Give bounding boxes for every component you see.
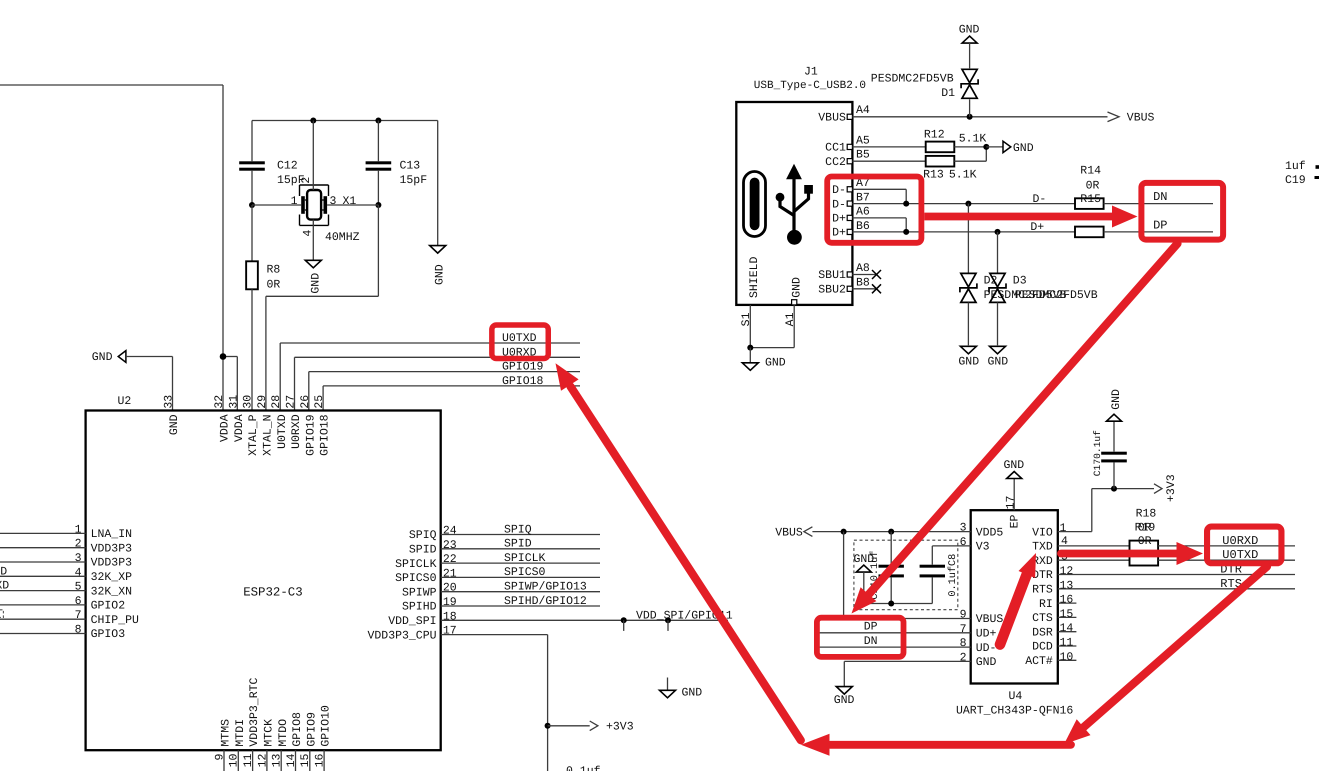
svg-text:A1: A1 xyxy=(784,312,797,326)
svg-text:R14: R14 xyxy=(1080,165,1101,178)
svg-text:VDD3P3_CPU: VDD3P3_CPU xyxy=(367,629,436,642)
svg-text:GND: GND xyxy=(1013,142,1034,155)
svg-text:MTCK: MTCK xyxy=(263,719,276,747)
svg-text:D1: D1 xyxy=(941,87,955,100)
svg-text:19: 19 xyxy=(443,596,457,609)
svg-text:GPIO18: GPIO18 xyxy=(502,375,544,388)
svg-text:GND: GND xyxy=(834,694,855,707)
svg-text:VBUS: VBUS xyxy=(818,112,846,125)
wire crystal top GND rail xyxy=(252,120,438,122)
U2 pin 16 GPIO10 xyxy=(314,705,333,771)
J1 pin B8 SBU2 no-connect xyxy=(818,277,881,297)
svg-text:VBUS: VBUS xyxy=(775,526,803,539)
svg-text:VIO: VIO xyxy=(1032,526,1053,539)
U2 pin 20 SPIWP xyxy=(402,582,600,600)
svg-text:MTMS: MTMS xyxy=(220,719,233,747)
svg-text:MTDO: MTDO xyxy=(277,719,290,747)
U2 pin 31 VDDA xyxy=(227,395,246,442)
svg-text:GND: GND xyxy=(791,277,804,298)
svg-text:28: 28 xyxy=(270,395,283,409)
svg-text:12: 12 xyxy=(256,754,269,768)
annotation red diagonal right box to bottom xyxy=(1064,567,1267,745)
U4 pin 17 EP xyxy=(1005,479,1022,529)
J1 pin S1 SHIELD xyxy=(740,305,753,348)
svg-text:PESDMC2FD5VB: PESDMC2FD5VB xyxy=(1015,289,1098,302)
svg-text:U0RXD: U0RXD xyxy=(290,414,303,449)
svg-text:UD-: UD- xyxy=(976,642,997,655)
svg-text:0R: 0R xyxy=(1086,179,1100,192)
svg-text:GND: GND xyxy=(988,355,1009,368)
svg-text:C19: C19 xyxy=(1285,174,1306,187)
node VDD_SPI junction 1 xyxy=(621,617,627,631)
svg-text:9: 9 xyxy=(213,754,226,761)
J1 pin A6 D+ xyxy=(832,206,906,232)
U2 pin 13 MTDO xyxy=(271,719,290,771)
svg-text:CHIP_PU: CHIP_PU xyxy=(91,614,139,627)
svg-text:VBUS: VBUS xyxy=(976,613,1004,626)
svg-text:RI: RI xyxy=(1039,598,1053,611)
svg-text:VDD3P3: VDD3P3 xyxy=(91,542,133,555)
svg-text:VDD3P3_RTC: VDD3P3_RTC xyxy=(248,677,261,746)
svg-text:14: 14 xyxy=(285,754,298,768)
svg-text:31: 31 xyxy=(227,395,240,409)
svg-text:15pF: 15pF xyxy=(400,174,428,187)
node C13 top junction xyxy=(375,118,381,124)
net label VBUS output arrow xyxy=(1108,112,1155,125)
svg-text:SPIWP: SPIWP xyxy=(402,586,437,599)
U2 pin 6 GPIO2 xyxy=(0,595,125,613)
U4 pin 7 UD+ xyxy=(819,623,996,641)
svg-text:24: 24 xyxy=(443,525,457,538)
svg-text:15: 15 xyxy=(299,754,312,768)
svg-text:29: 29 xyxy=(256,395,269,409)
J1 pin A1 GND xyxy=(750,300,797,348)
U2 pin 25 GPIO18 xyxy=(313,395,332,456)
U4 pin 13 RTS xyxy=(1032,579,1295,596)
J1 pin B6 D+ xyxy=(832,220,1075,240)
svg-text:0R: 0R xyxy=(1138,535,1152,548)
U2 pin 28 U0TXD xyxy=(270,395,289,449)
svg-text:32: 32 xyxy=(213,395,226,409)
svg-text:SPIHD/GPIO12: SPIHD/GPIO12 xyxy=(504,595,587,608)
svg-text:1: 1 xyxy=(1060,522,1067,535)
svg-text:R8: R8 xyxy=(267,263,281,276)
svg-text:X1: X1 xyxy=(343,195,357,208)
svg-text:DCD: DCD xyxy=(1032,641,1053,654)
svg-text:1: 1 xyxy=(75,523,82,536)
IC U4 UART_CH343P-QFN16 body xyxy=(956,510,1073,717)
wire U2 pin31 jog to pin32 xyxy=(223,357,237,411)
svg-text:SBU1: SBU1 xyxy=(818,269,846,282)
U2 pin 30 XTAL_P xyxy=(242,395,261,456)
svg-text:SPID: SPID xyxy=(409,544,437,557)
svg-text:9: 9 xyxy=(960,609,967,622)
capacitor C17 0.1uf xyxy=(1092,421,1127,488)
svg-text:D-: D- xyxy=(1033,193,1047,206)
svg-text:6: 6 xyxy=(960,536,967,549)
resistor R14 0R on D+ line xyxy=(1075,227,1104,238)
svg-text:U0TXD: U0TXD xyxy=(276,414,289,449)
svg-text:RTS: RTS xyxy=(1032,584,1053,597)
U2 pin 32 VDDA xyxy=(213,395,232,442)
wire net U0RXD from U2 pin27 xyxy=(295,357,581,410)
wire top-left net to U2 pin 32 xyxy=(0,85,223,411)
svg-text:U0RXD: U0RXD xyxy=(1222,534,1258,548)
svg-text:7: 7 xyxy=(960,623,967,636)
connector J1 USB_Type-C_USB2.0 body xyxy=(736,66,866,305)
svg-text:GND: GND xyxy=(310,273,323,294)
svg-text:S1: S1 xyxy=(740,312,753,326)
wire net GPIO19 from U2 pin26 xyxy=(309,372,580,411)
svg-text:CTS: CTS xyxy=(1032,612,1053,625)
svg-text:22: 22 xyxy=(443,553,457,566)
ground below D3 xyxy=(988,346,1009,368)
svg-text:ESP32-C3: ESP32-C3 xyxy=(243,586,303,600)
node X1 pin2 junction xyxy=(310,118,316,124)
U2 pin 10 MTDI xyxy=(228,719,247,771)
svg-text:0.1uf: 0.1uf xyxy=(566,765,601,771)
U2 pin 12 MTCK xyxy=(256,719,275,771)
svg-text:SPIHD: SPIHD xyxy=(402,601,437,614)
annotation red box U0TXD/U0RXD top xyxy=(492,325,548,358)
svg-text:+3V3: +3V3 xyxy=(1165,474,1178,502)
svg-text:32K_XN: 32K_XN xyxy=(91,585,132,598)
U2 pin 15 GPIO9 xyxy=(299,712,318,771)
svg-text:D3: D3 xyxy=(1013,274,1027,287)
U2 pin 3 VDD3P3 xyxy=(0,552,132,570)
svg-text:J1: J1 xyxy=(804,66,818,79)
svg-text:3: 3 xyxy=(960,522,967,535)
svg-text:R13: R13 xyxy=(923,169,944,182)
J1 pin A7 D- xyxy=(832,177,906,204)
svg-text:14: 14 xyxy=(1060,622,1074,635)
node S1/A1 junction xyxy=(747,345,753,351)
svg-text:16: 16 xyxy=(1060,594,1074,607)
svg-text:7: 7 xyxy=(75,609,82,622)
svg-text:30: 30 xyxy=(242,395,255,409)
svg-text:8: 8 xyxy=(960,637,967,650)
svg-text:GND: GND xyxy=(976,656,997,669)
svg-text:4: 4 xyxy=(1061,535,1068,548)
J1 pin B7 D- xyxy=(832,191,1075,211)
IC U2 ESP32-C3 body xyxy=(86,395,441,750)
svg-text:UART_CH343P-QFN16: UART_CH343P-QFN16 xyxy=(956,705,1073,718)
U2 pin 29 XTAL_N xyxy=(256,395,275,456)
svg-text:17: 17 xyxy=(1005,496,1018,510)
svg-text:B6: B6 xyxy=(856,220,870,233)
svg-text:20: 20 xyxy=(443,582,457,595)
svg-text:D+: D+ xyxy=(832,213,846,226)
svg-text:3: 3 xyxy=(75,552,82,565)
net label VBUS input at U4 xyxy=(775,526,812,539)
svg-text:SHIELD: SHIELD xyxy=(748,256,761,298)
node VBUS/C11 junction xyxy=(888,529,894,535)
U2 pin 21 SPICS0 xyxy=(395,567,600,585)
ground below D2 xyxy=(958,346,979,368)
node +3V3 junction xyxy=(545,723,551,729)
svg-text:25: 25 xyxy=(313,395,326,409)
svg-text:GPIO10: GPIO10 xyxy=(320,705,333,747)
capacitor C12 xyxy=(239,121,305,206)
svg-text:5.1K: 5.1K xyxy=(949,169,977,182)
svg-text:+3V3: +3V3 xyxy=(606,721,634,734)
annotation red arrow TXD to U0RXD box xyxy=(1061,542,1203,565)
svg-text:1uf: 1uf xyxy=(1285,160,1306,173)
svg-text:D+: D+ xyxy=(1030,221,1044,234)
svg-text:11: 11 xyxy=(1060,637,1074,650)
svg-text:SPICLK: SPICLK xyxy=(395,558,437,571)
svg-text:GND: GND xyxy=(958,355,979,368)
ground flag at U2 pin 33 xyxy=(92,351,173,411)
ground below J1 xyxy=(742,348,786,371)
svg-text:1: 1 xyxy=(291,195,298,208)
svg-text:B8: B8 xyxy=(856,277,870,290)
svg-text:21: 21 xyxy=(443,567,457,580)
svg-text:C170.1uf: C170.1uf xyxy=(1092,430,1103,476)
node X1 pin3 junction xyxy=(375,202,381,208)
svg-text:VDDA: VDDA xyxy=(233,414,246,442)
svg-text:DP: DP xyxy=(1153,219,1167,233)
capacitor C8 0.1uf xyxy=(920,546,959,604)
svg-text:U4: U4 xyxy=(1009,690,1023,703)
wire X1 pin3 to C13 node xyxy=(327,204,378,206)
annotation red box U0RXD/U0TXD right xyxy=(1207,527,1281,564)
svg-text:SPICLK: SPICLK xyxy=(504,552,546,565)
node D3 branch junction xyxy=(995,229,1001,235)
svg-text:XTAL_N: XTAL_N xyxy=(262,414,275,455)
U2 pin 9 MTMS xyxy=(213,719,232,771)
svg-text:C12: C12 xyxy=(277,160,298,173)
U2 pin 4 32K_XP xyxy=(0,566,132,584)
svg-text:10: 10 xyxy=(1060,651,1074,664)
U4 pin 4 TXD / resistor R18 0R xyxy=(1032,507,1295,553)
TVS diode D2 PESDMC2FD5VB xyxy=(960,204,1067,346)
capacitor C13 xyxy=(366,121,428,206)
node D2 branch junction xyxy=(965,201,971,207)
svg-text:XTAL_P: XTAL_P xyxy=(247,414,260,456)
dashed box fragment at U2 pin7 xyxy=(0,610,3,618)
svg-text:B5: B5 xyxy=(856,149,870,162)
svg-text:27: 27 xyxy=(285,395,298,409)
annotation red box U4 DP/DN xyxy=(817,618,904,657)
node CC pullup junction xyxy=(983,144,989,150)
svg-text:GND: GND xyxy=(682,687,703,700)
capacitor C19 1uf fragment at right edge xyxy=(1285,160,1319,187)
svg-text:VDD_SPI: VDD_SPI xyxy=(388,615,436,628)
svg-text:VDD5: VDD5 xyxy=(976,526,1004,539)
U2 pin 1 LNA_IN xyxy=(0,523,132,541)
svg-text:3: 3 xyxy=(330,195,337,208)
svg-text:17: 17 xyxy=(443,625,457,638)
U4 pin 5 RXD / resistor R19 0R xyxy=(1032,551,1295,568)
svg-text:26: 26 xyxy=(299,395,312,409)
svg-text:VDD3P3: VDD3P3 xyxy=(91,557,133,570)
U2 pin 22 SPICLK xyxy=(395,553,600,571)
svg-text:40MHZ: 40MHZ xyxy=(325,231,360,244)
svg-text:GND: GND xyxy=(433,264,446,285)
power label +3V3 at U2 xyxy=(548,721,634,734)
svg-text:4: 4 xyxy=(75,566,82,579)
svg-text:MTDI: MTDI xyxy=(234,719,247,747)
U2 pin 18 VDD_SPI xyxy=(388,610,728,628)
svg-text:SPICS0: SPICS0 xyxy=(504,566,546,579)
annotation red diagonal bottom to U0TXD box xyxy=(556,363,801,740)
node X1 pin1 junction xyxy=(249,202,255,208)
svg-text:EP: EP xyxy=(1009,515,1022,529)
svg-text:GPIO8: GPIO8 xyxy=(291,712,304,747)
dashed box decoupling caps xyxy=(854,540,958,610)
svg-text:VDDA: VDDA xyxy=(219,414,232,442)
wire D+ to DP label xyxy=(1104,231,1213,233)
svg-text:5.1K: 5.1K xyxy=(959,133,987,146)
svg-text:5: 5 xyxy=(75,581,82,594)
node VBUS / D1 junction xyxy=(967,114,973,120)
svg-text:GND: GND xyxy=(959,23,980,36)
ground below X1 pin4 xyxy=(305,260,322,293)
svg-text:0R: 0R xyxy=(267,279,281,292)
svg-text:GPIO19: GPIO19 xyxy=(502,361,544,374)
wire net U0TXD from U2 pin28 xyxy=(280,343,580,411)
svg-text:33: 33 xyxy=(163,395,176,409)
annotation red diagonal DN/DP to U4 DP/DN xyxy=(852,244,1178,614)
wire D- to DN label xyxy=(1104,203,1213,205)
svg-text:8: 8 xyxy=(75,624,82,637)
ground below U4 pin2 xyxy=(834,687,855,708)
U2 pin 23 SPID xyxy=(409,539,600,557)
wire net GPIO18 from U2 pin25 xyxy=(323,386,580,411)
USB-C receptacle icon xyxy=(744,172,766,237)
node VDD_SPI junction 2 xyxy=(665,617,671,631)
svg-text:13: 13 xyxy=(271,754,284,768)
svg-text:0.1ufC8: 0.1ufC8 xyxy=(947,554,959,597)
svg-text:R18: R18 xyxy=(1136,507,1157,520)
node cap ground junction xyxy=(888,601,894,607)
svg-text:GND: GND xyxy=(168,414,181,435)
svg-text:DN: DN xyxy=(1153,190,1167,204)
U2 pin 33 GND xyxy=(163,395,182,435)
J1 pin A4 VBUS xyxy=(818,104,1107,124)
node VBUS branch junction xyxy=(841,529,847,535)
wire +3V3 rail at U4 xyxy=(1092,488,1154,490)
annotation red box DN/DP xyxy=(1141,183,1223,240)
svg-text:D2: D2 xyxy=(984,274,998,287)
ground above U4 EP xyxy=(1004,459,1025,479)
ground near VDD_SPI xyxy=(660,678,703,700)
svg-text:2: 2 xyxy=(75,538,82,551)
U4 pin 3 VDD5 xyxy=(812,522,1003,540)
TVS diode D1 PESDMC2FD5VB xyxy=(871,69,978,117)
svg-text:GPIO19: GPIO19 xyxy=(304,414,317,456)
svg-text:R19: R19 xyxy=(1135,522,1156,535)
USB trident icon xyxy=(776,164,813,245)
U4 pin 11 DCD xyxy=(1032,637,1076,654)
U4 pin 12 DTR xyxy=(1032,565,1295,582)
U4 pin 15 CTS xyxy=(1032,608,1076,625)
svg-text:16: 16 xyxy=(314,754,327,768)
svg-text:DSR: DSR xyxy=(1032,626,1053,639)
svg-text:2: 2 xyxy=(300,177,313,184)
resistor R15 0R on D- line xyxy=(1075,165,1104,209)
svg-text:D-: D- xyxy=(832,198,846,211)
svg-text:D+: D+ xyxy=(832,227,846,240)
node A7/B7 junction xyxy=(903,201,909,207)
svg-text:U2: U2 xyxy=(118,395,132,408)
svg-text:13: 13 xyxy=(1060,579,1074,592)
crystal X1 40MHZ xyxy=(291,121,360,261)
svg-text:SPICS0: SPICS0 xyxy=(395,572,437,585)
U2 pin 11 VDD3P3_RTC xyxy=(242,677,261,771)
svg-text:SPIWP/GPIO13: SPIWP/GPIO13 xyxy=(504,581,587,594)
ground inside dashed box xyxy=(854,553,933,603)
power label +3V3 at U4 xyxy=(1154,474,1178,502)
wire X1 pin1 to C12 node xyxy=(252,204,301,206)
annotation red arrow UD to RXD xyxy=(1000,553,1036,645)
svg-text:11: 11 xyxy=(242,754,255,768)
svg-text:A8: A8 xyxy=(856,262,870,275)
U2 pin 26 GPIO19 xyxy=(299,395,318,456)
svg-text:SBU2: SBU2 xyxy=(818,284,846,297)
wire XTAL_N path C13 to U2 pin29 xyxy=(266,205,379,411)
svg-text:A5: A5 xyxy=(856,134,870,147)
J1 pin A8 SBU1 no-connect xyxy=(818,262,881,282)
svg-text:4: 4 xyxy=(301,230,314,237)
svg-text:TXD: TXD xyxy=(1032,541,1053,554)
U2 pin 14 GPIO8 xyxy=(285,712,304,771)
U4 pin 9 VBUS xyxy=(844,532,1004,627)
svg-text:UD+: UD+ xyxy=(976,628,997,641)
svg-text:12: 12 xyxy=(1060,565,1074,578)
svg-text:D: D xyxy=(0,565,7,578)
svg-text:GPIO3: GPIO3 xyxy=(91,628,126,641)
svg-text:SPIQ: SPIQ xyxy=(504,523,532,536)
annotation red box USB D pins xyxy=(827,177,921,243)
svg-text:10: 10 xyxy=(228,754,241,768)
svg-text:R12: R12 xyxy=(924,129,945,142)
svg-text:23: 23 xyxy=(443,539,457,552)
svg-text:B7: B7 xyxy=(856,191,870,204)
svg-text:A6: A6 xyxy=(856,206,870,219)
svg-text:U0TXD: U0TXD xyxy=(502,332,537,345)
svg-text:6: 6 xyxy=(75,595,82,608)
U2 pin 24 SPIQ xyxy=(409,525,600,543)
svg-text:D-: D- xyxy=(832,184,846,197)
U2 pin 7 CHIP_PU xyxy=(0,609,139,627)
ground above D1 xyxy=(959,23,980,68)
U4 pin 2 GND xyxy=(844,651,996,686)
U2 pin 2 VDD3P3 xyxy=(0,538,132,556)
capacitor C11 0.1uf xyxy=(869,532,904,604)
U2 pin 19 SPIHD xyxy=(402,596,600,614)
svg-text:A4: A4 xyxy=(856,104,870,117)
svg-text:DN: DN xyxy=(864,635,878,648)
svg-text:GND: GND xyxy=(92,351,113,364)
svg-text:GND: GND xyxy=(1110,389,1123,410)
ground flag right of R12 xyxy=(986,141,1033,155)
U4 pin 6 V3 xyxy=(932,536,989,554)
svg-text:V3: V3 xyxy=(976,541,990,554)
ground right of crystal xyxy=(430,246,447,285)
svg-text:GND: GND xyxy=(1004,459,1025,472)
node A6/B6 junction xyxy=(903,229,909,235)
annotation red bottom horizontal arrow xyxy=(801,734,1071,756)
svg-text:C13: C13 xyxy=(400,160,421,173)
U2 pin 17 VDD3P3_CPU xyxy=(367,625,547,771)
svg-text:2: 2 xyxy=(960,651,967,664)
svg-text:CC2: CC2 xyxy=(825,156,846,169)
U4 pin 1 VIO xyxy=(1032,489,1092,540)
wire crystal rail to ground right branch xyxy=(437,121,439,246)
svg-text:VBUS: VBUS xyxy=(1127,112,1155,125)
